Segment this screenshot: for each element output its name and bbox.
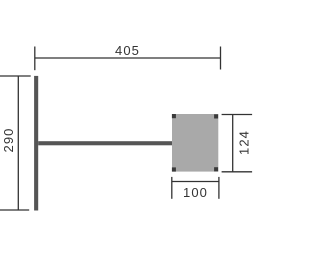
svg-text:100: 100 bbox=[183, 185, 208, 200]
screw dot bottom-left bbox=[172, 167, 176, 171]
dimension 124 line bbox=[232, 115, 234, 172]
dimension 405 right tick bbox=[220, 47, 222, 70]
dimension 100 line bbox=[172, 181, 219, 183]
svg-text:290: 290 bbox=[1, 128, 16, 153]
wall rail (vertical bar) bbox=[34, 76, 38, 211]
dimension 405 line bbox=[35, 57, 221, 59]
dimension 124 top extension bbox=[222, 114, 253, 116]
support arm bbox=[38, 141, 172, 145]
svg-text:405: 405 bbox=[115, 43, 140, 58]
mounting plate bbox=[172, 114, 218, 172]
dimension 124 bottom extension bbox=[222, 171, 253, 173]
dimension 290 top extension bbox=[0, 75, 31, 77]
screw dot bottom-right bbox=[214, 167, 218, 171]
dimension 405 left tick bbox=[34, 47, 36, 71]
dimension 100 left tick bbox=[171, 177, 173, 199]
dimension 100 right tick bbox=[218, 177, 220, 199]
screw dot top-left bbox=[172, 114, 176, 118]
screw dot top-right bbox=[214, 114, 218, 118]
dimension 290 bottom extension bbox=[0, 209, 29, 211]
svg-text:124: 124 bbox=[236, 130, 251, 155]
dimension 290 line bbox=[17, 76, 19, 210]
